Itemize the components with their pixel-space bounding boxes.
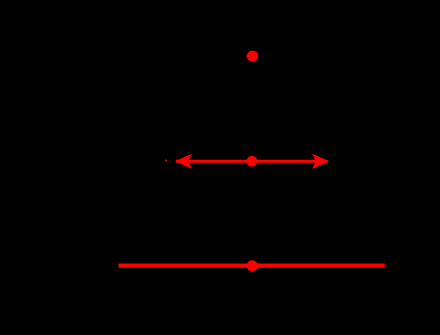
right arrowhead (312, 154, 329, 169)
particle position dot (bottom) (247, 260, 258, 271)
wave packet curve (middle) black ink (166, 151, 338, 174)
svg-text:Δx: Δx (243, 132, 261, 149)
wave packet curve (top, point-like particle) black ink (232, 55, 272, 57)
particle position dot (top) (247, 51, 258, 62)
position spread line (bottom) (119, 264, 385, 268)
left arrowhead (175, 154, 192, 169)
particle position dot (middle) (247, 156, 258, 167)
double-headed arrow shaft (middle, position spread) (176, 160, 328, 163)
arrow tip speck left of middle arrow (165, 160, 167, 162)
extended sine wave (bottom) black ink (110, 253, 400, 279)
tiny antialiased notch on left of top dot (246, 56, 247, 57)
